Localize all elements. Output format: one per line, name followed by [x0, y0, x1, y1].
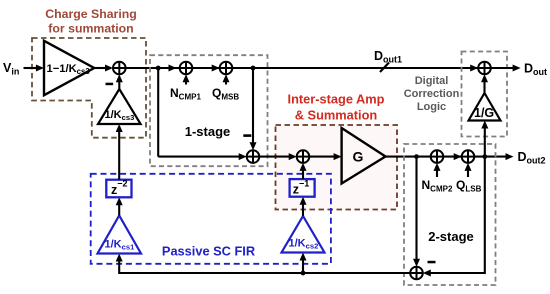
1-stage dashed box — [150, 55, 268, 166]
svg-text:1-stage: 1-stage — [185, 124, 231, 139]
adder A4 (1-stage subtractor) — [247, 150, 260, 163]
label Inter-stage Amp & Summation — [288, 92, 385, 123]
wire G to Dout2 (junctions J3, J4) — [386, 153, 514, 160]
wire J4 down and left to A10 — [423, 157, 485, 277]
wire bottom up into 1/Kcs2 — [300, 253, 307, 274]
wire A5 to G amp — [309, 153, 341, 160]
svg-text:Logic: Logic — [417, 101, 446, 113]
delay block z-2 — [106, 179, 131, 198]
DCL dashed box — [462, 52, 508, 137]
wire J3 down to A10 — [413, 157, 420, 267]
bus slash on Dout1 — [380, 63, 389, 73]
wire J1 down and right to A4 — [157, 68, 159, 157]
arrow NCMP2 into A8 — [434, 163, 441, 177]
arrow NCMP1 into A2 — [183, 74, 190, 84]
label: Charge Sharing for summation — [45, 7, 137, 36]
wire 1/Kcs1 to z-2 — [116, 197, 123, 215]
inter-stage dashed box — [276, 125, 398, 210]
adder A5 (inter-stage) — [297, 150, 310, 163]
adder A10 (feedback subtractor) — [410, 267, 423, 280]
wire A7 to Dout — [491, 65, 521, 72]
svg-text:& Summation: & Summation — [295, 108, 378, 123]
wire J2 down to A4 — [250, 68, 257, 150]
adder A8 (NCMP2) — [431, 150, 444, 163]
blue dashed box Passive SC FIR — [91, 174, 331, 264]
svg-text:G: G — [353, 149, 364, 165]
wire amp to adder A1 — [94, 65, 113, 72]
svg-text:2-stage: 2-stage — [428, 229, 474, 244]
wire 1/Kcs3 to A1 — [116, 74, 123, 89]
arrow QLSB into A9 — [465, 163, 472, 177]
svg-text:Correction: Correction — [404, 88, 460, 100]
svg-text:Digital: Digital — [415, 75, 449, 87]
adder A3 (QMSB) — [220, 62, 233, 75]
delay block z-1 — [290, 178, 315, 196]
svg-text:Passive SC FIR: Passive SC FIR — [162, 244, 255, 259]
minus sign at A10 — [428, 261, 436, 264]
arrow between A8 and A9 — [454, 153, 462, 160]
charge sharing dashed box — [32, 38, 146, 138]
wire J4 up to 1/G — [481, 121, 488, 157]
2-stage dashed box — [404, 144, 496, 285]
amplifier 1/Kcs2 — [282, 216, 325, 253]
amplifier G — [342, 128, 386, 184]
wire 1/G to A7 — [481, 74, 488, 93]
amplifier 1/Kcs1 — [98, 216, 142, 254]
feedback bottom wire A10 to FIR (junction J5) — [119, 258, 410, 275]
wire z-2 to 1/Kcs3 — [116, 124, 123, 180]
arrowhead into A7 — [470, 65, 478, 72]
adder A7 (DCL) — [478, 62, 491, 75]
svg-text:for summation: for summation — [48, 22, 133, 36]
adder A9 (QLSB) — [462, 150, 475, 163]
adder A1 — [113, 62, 126, 75]
wire A4 to A5 — [259, 153, 296, 160]
wire bottom up into 1/Kcs1 — [116, 254, 123, 262]
adder A2 (NCMP1) — [180, 62, 193, 75]
amplifier 1/G — [469, 93, 501, 121]
amplifier 1-1/Kcs3 — [44, 41, 94, 95]
minus sign at A4 — [243, 134, 251, 137]
minus sign at A1 — [106, 83, 114, 86]
wire A1 to stage1 adders (with junction J1) — [126, 65, 180, 72]
amplifier 1/Kcs3 — [98, 89, 141, 124]
arrow QMSB into A3 — [223, 74, 230, 84]
wire z-1 to A5 — [300, 163, 307, 179]
svg-text:Charge Sharing: Charge Sharing — [45, 7, 137, 21]
svg-text:Inter-stage Amp: Inter-stage Amp — [288, 92, 385, 107]
wire A3 to DCL adder (Dout1 line, junction J2) — [232, 66, 478, 71]
label Digital Correction Logic — [404, 75, 460, 113]
wire 1/Kcs2 to z-1 — [300, 197, 307, 216]
svg-text:1/G: 1/G — [474, 106, 494, 120]
wire A2 to A3 — [192, 65, 219, 72]
wire Vin to amp — [24, 65, 44, 72]
